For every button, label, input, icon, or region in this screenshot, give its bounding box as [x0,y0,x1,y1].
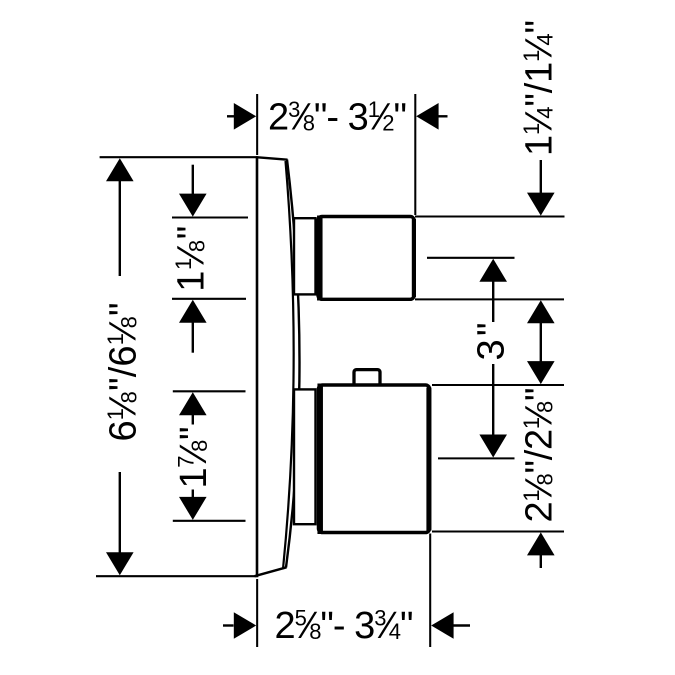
svg-text:3": 3" [470,323,512,361]
